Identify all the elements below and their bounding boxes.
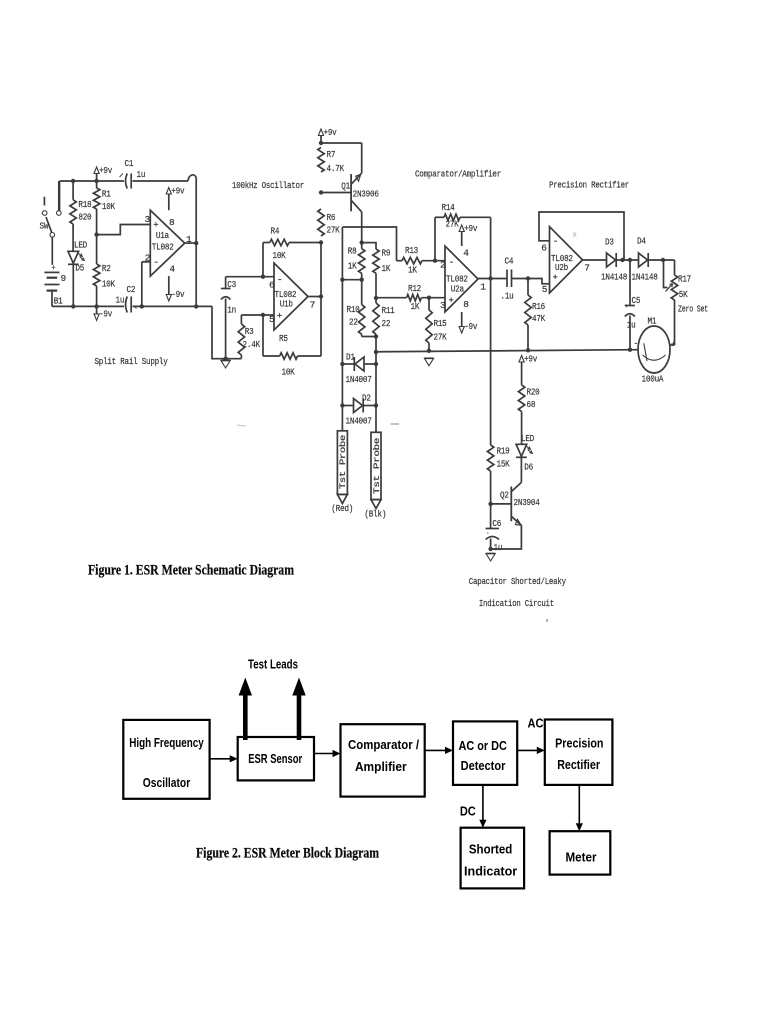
stray mark comma (545, 616, 549, 624)
op-amp U1a (145, 210, 193, 276)
svg-text:R13: R13 (405, 245, 418, 256)
capacitor C4 (501, 256, 514, 302)
svg-text:+9v: +9v (464, 223, 477, 234)
svg-text:Tst Probe: Tst Probe (373, 437, 382, 494)
capacitor C3 (221, 277, 237, 359)
svg-text:+9v: +9v (99, 165, 112, 176)
svg-text:4: 4 (169, 264, 175, 275)
svg-text:R14: R14 (442, 202, 455, 213)
resistor R8 (348, 243, 365, 280)
svg-text:15K: 15K (497, 459, 510, 470)
svg-text:22: 22 (382, 318, 391, 329)
svg-text:U1a: U1a (156, 230, 169, 241)
op-amp U2b (541, 227, 589, 295)
svg-text:Test Leads: Test Leads (248, 657, 298, 672)
svg-text:+: + (277, 312, 282, 322)
svg-text:C5: C5 (632, 295, 641, 306)
diode D2 1N4007 (340, 393, 378, 427)
svg-text:8: 8 (463, 299, 469, 310)
svg-text:Figure 2. ESR Meter Block Diag: Figure 2. ESR Meter Block Diagram (196, 846, 379, 862)
svg-text:R19: R19 (497, 446, 510, 457)
LED D5 (68, 240, 87, 274)
svg-text:Shorted: Shorted (469, 842, 512, 857)
block Meter (550, 831, 611, 874)
svg-text:D3: D3 (605, 237, 614, 248)
svg-text:-9v: -9v (464, 321, 477, 332)
transistor Q1 2N3906 (321, 173, 379, 242)
svg-text:R1: R1 (102, 189, 111, 200)
svg-text:(Blk): (Blk) (364, 509, 386, 520)
wire U1b pin5 input (241, 313, 274, 317)
svg-text:820: 820 (78, 212, 91, 223)
svg-text:-: - (277, 276, 283, 287)
svg-text:B1: B1 (54, 296, 63, 307)
svg-text:2N3904: 2N3904 (514, 497, 541, 508)
section title Precision Rectifier (549, 180, 629, 191)
svg-text:Tst Probe: Tst Probe (339, 434, 348, 489)
wire U2b output (583, 259, 607, 261)
wire divider to U1a pin3 (97, 225, 151, 235)
svg-text:4.7K: 4.7K (327, 163, 345, 174)
label Test Leads (248, 657, 298, 672)
wire C4 to U2b pin5 (512, 276, 550, 284)
resistor R7 (318, 148, 345, 175)
block AC or DC Detector (453, 721, 517, 785)
svg-text:5K: 5K (679, 289, 688, 300)
resistor R9 (362, 243, 391, 298)
arrow sensor to comparator (314, 750, 341, 757)
wire U1a pin4 supply (166, 276, 185, 301)
resistor R2 (93, 235, 115, 307)
switch SW (40, 181, 62, 237)
battery B1 (44, 265, 66, 307)
block Precision Rectifier (545, 720, 613, 785)
node bottom rail junctions (71, 304, 198, 308)
node R1 R2 divider (94, 232, 98, 236)
svg-text:Rectifier: Rectifier (557, 757, 600, 772)
svg-text:1N4007: 1N4007 (346, 416, 372, 427)
svg-text:+: + (153, 221, 158, 231)
svg-text:U2a: U2a (451, 284, 464, 295)
svg-text:10K: 10K (102, 201, 115, 212)
wire D1 to D2 right (375, 364, 377, 406)
node R4 junction (319, 240, 323, 244)
wire U2a output (478, 276, 507, 280)
block Shorted Indicator (461, 828, 524, 889)
svg-text:+: + (671, 341, 676, 350)
op-amp U2a (440, 246, 486, 312)
capacitor C2 (116, 284, 137, 313)
stray mark (391, 423, 400, 425)
label AC (528, 716, 544, 731)
resistor R15 (426, 296, 447, 351)
svg-text:10K: 10K (282, 367, 295, 378)
wire R17 to meter (670, 344, 675, 346)
power +9v oscillator (318, 127, 337, 145)
svg-text:.1u: .1u (501, 291, 514, 302)
ground at C3 (221, 357, 230, 369)
svg-text:C4: C4 (505, 256, 514, 267)
svg-text:4: 4 (463, 248, 469, 259)
svg-text:x: x (573, 232, 577, 240)
test lead arrow right (292, 678, 305, 741)
svg-text:27K: 27K (434, 332, 447, 343)
svg-text:Zero Set: Zero Set (678, 304, 708, 315)
svg-text:Q2: Q2 (500, 490, 509, 501)
wire switch to battery (51, 237, 53, 265)
resistor R6 (318, 209, 340, 236)
svg-text:R10: R10 (347, 304, 360, 315)
svg-text:D1: D1 (346, 352, 355, 363)
svg-text:U1b: U1b (280, 299, 293, 310)
LED D6 (516, 433, 534, 473)
svg-text:1: 1 (480, 282, 486, 293)
svg-text:-9v: -9v (99, 308, 112, 319)
resistor R14 feedback (433, 202, 491, 263)
resistor R1 (93, 181, 115, 235)
svg-text:Comparator/Amplifier: Comparator/Amplifier (415, 169, 501, 180)
svg-text:R9: R9 (382, 248, 391, 259)
wire R14 to output (490, 217, 492, 278)
svg-text:AC or DC: AC or DC (459, 738, 508, 753)
test probe red (331, 406, 353, 515)
svg-text:R12: R12 (408, 283, 421, 294)
power -9v arrow below R2 (94, 306, 113, 320)
svg-text:R11: R11 (382, 305, 395, 316)
svg-text:High Frequency: High Frequency (129, 735, 204, 750)
resistor R10 (347, 280, 365, 337)
arrow comparator to detector (425, 747, 453, 754)
svg-text:R17: R17 (678, 274, 691, 285)
node top rail junctions (71, 179, 99, 183)
svg-text:D4: D4 (637, 236, 646, 247)
svg-text:6: 6 (541, 243, 547, 254)
wire D4 to R17 (648, 258, 674, 262)
svg-text:LED: LED (74, 240, 87, 251)
meter M1 100uA (634, 316, 677, 385)
block Comparator Amplifier (341, 724, 425, 796)
resistor R18 (70, 181, 92, 251)
power +9v arrow at R1 (94, 165, 113, 181)
resistor R13 (397, 245, 446, 276)
node C5 bottom (628, 348, 632, 352)
svg-text:.: . (486, 529, 489, 536)
svg-text:R20: R20 (527, 387, 540, 398)
wire comparator output down (490, 279, 492, 444)
svg-text:5: 5 (269, 314, 275, 325)
svg-text:2N3906: 2N3906 (353, 189, 380, 200)
svg-text:1N4007: 1N4007 (346, 374, 372, 385)
caption Figure 2 (196, 846, 379, 862)
resistor R16 (525, 279, 546, 351)
resistor R19 (487, 444, 510, 504)
svg-text:R8: R8 (348, 246, 357, 257)
ground at R15 (424, 349, 433, 366)
svg-text:R16: R16 (532, 301, 545, 312)
svg-text:D2: D2 (362, 393, 371, 404)
arrow detector to shorted indicator (479, 785, 486, 828)
svg-text:+: + (449, 296, 454, 306)
wire U2a pin4 supply (459, 223, 478, 246)
svg-text:-: - (634, 340, 639, 349)
svg-text:Meter: Meter (566, 850, 597, 865)
wire +9v to Q1 emitter (321, 143, 362, 173)
resistor R3 (238, 315, 260, 359)
section title 100kHz Oscillator (232, 180, 304, 191)
resistor R11 (373, 298, 395, 337)
svg-text:R7: R7 (327, 149, 336, 160)
test probe black (364, 406, 386, 520)
potentiometer R17 zero set (664, 260, 709, 345)
svg-text:C6: C6 (492, 518, 501, 529)
svg-text:9: 9 (61, 273, 67, 284)
wire U1b pin6 input (226, 275, 274, 279)
wire D1 to D2 left (341, 364, 343, 406)
svg-text:SW: SW (40, 221, 49, 232)
wire U1a pin2 feedback (142, 262, 151, 307)
resistor R4 (263, 226, 321, 277)
svg-text:+: + (52, 265, 56, 273)
wire probe rail left (341, 280, 343, 364)
wire U1b output (308, 243, 323, 357)
svg-text:47K: 47K (532, 313, 545, 324)
svg-text:Comparator /: Comparator / (348, 737, 419, 752)
resistor R12 (376, 283, 445, 312)
svg-text:AC: AC (528, 716, 544, 731)
capacitor C5 (625, 260, 641, 350)
svg-text:Oscillator: Oscillator (143, 775, 190, 790)
svg-text:1n: 1n (227, 305, 236, 316)
svg-text:Figure 1. ESR Meter Schematic: Figure 1. ESR Meter Schematic Diagram (88, 563, 294, 579)
capacitor C1 (120, 158, 146, 189)
svg-text:68: 68 (527, 399, 536, 410)
svg-text:-: - (153, 258, 159, 269)
diode D4 1N4148 (632, 236, 659, 283)
svg-text:1u: 1u (137, 169, 146, 180)
node R8 bottom junction (340, 278, 364, 282)
block High Frequency Oscillator (123, 720, 209, 799)
svg-text:+9v: +9v (171, 186, 184, 197)
svg-text:10K: 10K (102, 279, 115, 290)
node R10 R11 bottom junction (362, 334, 378, 352)
svg-text:R4: R4 (271, 226, 280, 237)
svg-text:27K: 27K (327, 225, 340, 236)
svg-text:Detector: Detector (461, 758, 506, 773)
wire sensor top rail (342, 227, 396, 280)
svg-text:-9v: -9v (171, 289, 184, 300)
svg-text:100uA: 100uA (642, 374, 664, 385)
wire U1a output (185, 241, 199, 245)
caption indication circuit (469, 576, 566, 609)
wire U2a pin8 supply (459, 312, 478, 333)
wire U1a output right rail (195, 243, 197, 306)
block ESR Sensor (238, 737, 314, 780)
stray smudge x (237, 232, 577, 427)
svg-text:8: 8 (169, 217, 175, 228)
svg-text:Indicator: Indicator (464, 864, 517, 879)
node Q1 collector junction (360, 240, 364, 244)
svg-text:Precision Rectifier: Precision Rectifier (549, 180, 629, 191)
svg-text:+: + (625, 303, 629, 310)
svg-text:R18: R18 (78, 199, 91, 210)
svg-text:5: 5 (542, 284, 548, 295)
label DC (460, 804, 476, 819)
wire D3 to D4 (616, 258, 638, 262)
svg-text:Split Rail Supply: Split Rail Supply (95, 356, 168, 367)
wire meter bottom rail (376, 350, 638, 352)
svg-text:100kHz Oscillator: 100kHz Oscillator (232, 180, 304, 191)
svg-text:1u: 1u (627, 320, 636, 331)
svg-text:7: 7 (584, 263, 589, 274)
svg-text:Amplifier: Amplifier (355, 759, 407, 774)
svg-text:LED: LED (521, 433, 534, 444)
svg-text:+9v: +9v (324, 127, 337, 138)
node R16 bottom (526, 348, 530, 352)
wire D6 to Q2 collector (520, 457, 522, 482)
svg-text:R3: R3 (245, 326, 254, 337)
wire bottom rail -9v (52, 306, 241, 358)
ground at C6 (486, 554, 495, 562)
svg-text:R6: R6 (327, 212, 336, 223)
svg-text:1N4148: 1N4148 (601, 272, 628, 283)
node R9 R11 R12 junction (374, 296, 378, 300)
section title Split Rail Supply (95, 356, 168, 367)
svg-text:1N4148: 1N4148 (632, 272, 659, 283)
svg-text:C1: C1 (125, 158, 134, 169)
section title Comparator/Amplifier (415, 169, 501, 180)
node sensor output junction (374, 350, 378, 354)
svg-text:R15: R15 (434, 318, 447, 329)
svg-text:3: 3 (145, 214, 151, 225)
svg-text:+9v: +9v (524, 354, 537, 365)
arrow detector to rectifier (517, 747, 545, 754)
svg-text:-: - (553, 237, 559, 248)
wire U1a pin8 supply (166, 186, 185, 211)
wire U2b feedback loop (539, 212, 624, 260)
node Q2 base junction (488, 502, 492, 506)
caption Figure 1 (88, 563, 294, 579)
wire top rail +9v (60, 175, 197, 243)
node Q1 base junction (319, 190, 323, 194)
svg-text:R5: R5 (279, 333, 288, 344)
svg-text:22: 22 (349, 317, 358, 328)
svg-text:1K: 1K (382, 263, 391, 274)
svg-text:1u: 1u (116, 295, 125, 306)
svg-text:D5: D5 (75, 263, 84, 274)
resistor R5 feedback (263, 315, 321, 378)
svg-text:2: 2 (440, 260, 446, 271)
svg-text:-: - (449, 258, 455, 269)
svg-text:1u: 1u (494, 542, 503, 553)
svg-text:M1: M1 (648, 316, 657, 327)
arrow rectifier to meter (576, 785, 583, 831)
svg-text:DC: DC (460, 804, 476, 819)
power +9v indication (519, 354, 538, 370)
test lead arrow left (239, 678, 252, 741)
svg-text:TL082: TL082 (152, 242, 174, 253)
transistor Q2 2N3904 (491, 482, 540, 525)
svg-text:7: 7 (310, 300, 315, 311)
capacitor C6 (486, 504, 503, 553)
diode D3 1N4148 (601, 237, 628, 283)
arrow oscillator to sensor (210, 755, 238, 762)
wire probe rail right (375, 352, 377, 364)
svg-text:(Red): (Red) (331, 503, 353, 514)
svg-text:Precision: Precision (555, 736, 603, 751)
svg-text:C3: C3 (227, 279, 236, 290)
resistor R20 (518, 370, 540, 445)
wire Q2 emitter return (488, 525, 521, 551)
svg-text:Q1: Q1 (341, 181, 350, 192)
op-amp U1b (269, 263, 315, 330)
svg-text:3: 3 (440, 300, 446, 311)
svg-text:27K: 27K (446, 219, 459, 230)
svg-text:2.4K: 2.4K (243, 339, 261, 350)
svg-text:1K: 1K (411, 301, 420, 312)
svg-text:R2: R2 (102, 263, 111, 274)
wire D5 to bottom rail (72, 265, 74, 307)
svg-text:C2: C2 (127, 284, 136, 295)
svg-text:1K: 1K (408, 265, 417, 276)
svg-text:1K: 1K (348, 261, 357, 272)
wire battery top drop (59, 181, 61, 211)
diode D1 1N4007 (340, 352, 378, 386)
svg-text:10K: 10K (273, 250, 286, 261)
svg-text:ESR Sensor: ESR Sensor (248, 751, 302, 766)
svg-text:Capacitor Shorted/Leaky: Capacitor Shorted/Leaky (469, 576, 566, 587)
svg-text:D6: D6 (524, 462, 533, 473)
svg-text:₃: ₃ (545, 616, 549, 624)
svg-text:+: + (553, 273, 558, 283)
svg-text:Indication Circuit: Indication Circuit (479, 598, 554, 609)
svg-text:U2b: U2b (555, 262, 568, 273)
